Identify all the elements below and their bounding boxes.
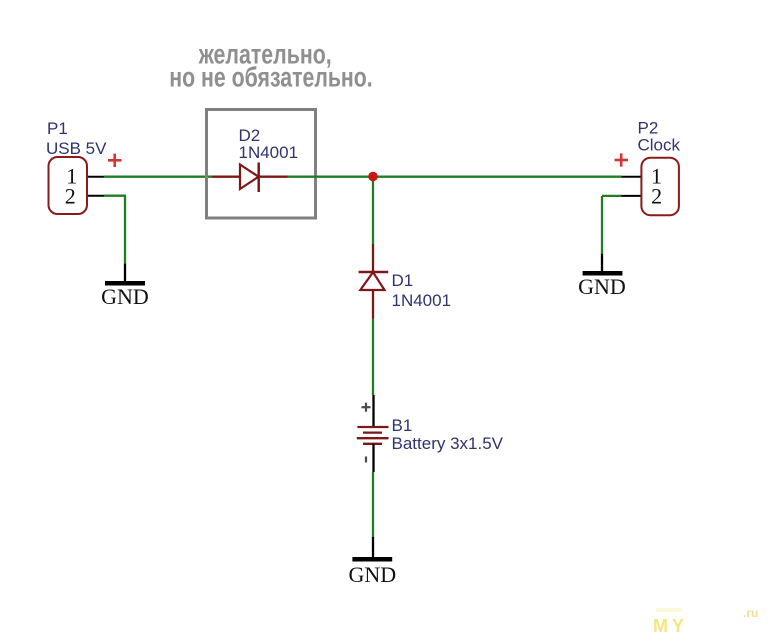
ground GND1 (P1) bbox=[101, 281, 149, 309]
D2 label bbox=[239, 126, 299, 162]
svg-text:1N4001: 1N4001 bbox=[392, 291, 452, 310]
D1 label bbox=[392, 271, 452, 310]
P2 + polarity mark bbox=[615, 153, 629, 166]
watermark bbox=[653, 606, 758, 636]
B1 label bbox=[392, 416, 504, 453]
B1 + mark bbox=[362, 403, 371, 412]
connector P1 bbox=[49, 157, 88, 214]
diode D1 bbox=[359, 244, 389, 319]
wire B1 to ground bbox=[372, 472, 374, 558]
wire D2 to node A bbox=[288, 176, 374, 178]
wire P1.1 to D2 bbox=[104, 176, 212, 178]
svg-text:USB 5V: USB 5V bbox=[46, 139, 107, 158]
svg-text:GND: GND bbox=[348, 562, 396, 587]
svg-text:GND: GND bbox=[101, 284, 149, 309]
B1 - mark bbox=[365, 457, 367, 463]
P2 pin 2 bbox=[622, 184, 663, 209]
wire D1 to B1 bbox=[372, 319, 374, 396]
svg-text:Battery 3x1.5V: Battery 3x1.5V bbox=[392, 434, 504, 453]
ground GND2 (P2) bbox=[578, 271, 626, 299]
wire node A to D1 bbox=[372, 177, 374, 244]
svg-text:GND: GND bbox=[578, 274, 626, 299]
P1 pin 1 bbox=[66, 163, 104, 188]
diode D2 bbox=[212, 163, 288, 193]
ground GND3 (battery) bbox=[348, 557, 396, 587]
svg-text:P1: P1 bbox=[47, 119, 68, 138]
svg-text:P2: P2 bbox=[638, 118, 659, 137]
diode D2 frame (gray box) bbox=[207, 110, 316, 219]
wire P1.2 to ground bbox=[104, 196, 126, 281]
P1 + polarity mark bbox=[108, 154, 122, 167]
svg-text:2: 2 bbox=[65, 184, 76, 209]
svg-text:.ru: .ru bbox=[743, 606, 758, 620]
svg-text:но не обязательно.: но не обязательно. bbox=[169, 61, 372, 92]
svg-text:2: 2 bbox=[651, 184, 662, 209]
svg-text:B1: B1 bbox=[392, 416, 413, 435]
P2 label bbox=[638, 118, 681, 154]
connector P2 bbox=[641, 158, 679, 216]
wire node A to P2.1 bbox=[373, 176, 622, 178]
P1 pin 2 bbox=[65, 184, 105, 209]
wire P2.2 to ground bbox=[602, 196, 622, 271]
P1 label bbox=[46, 119, 107, 158]
note text (gray annotation) bbox=[169, 39, 372, 93]
P2 pin 1 bbox=[622, 163, 663, 188]
svg-text:Clock: Clock bbox=[638, 136, 681, 155]
svg-text:1N4001: 1N4001 bbox=[239, 143, 299, 162]
svg-text:D1: D1 bbox=[392, 271, 414, 290]
svg-text:MY: MY bbox=[653, 616, 688, 636]
battery B1 bbox=[357, 395, 389, 472]
node A junction dot bbox=[368, 172, 378, 182]
